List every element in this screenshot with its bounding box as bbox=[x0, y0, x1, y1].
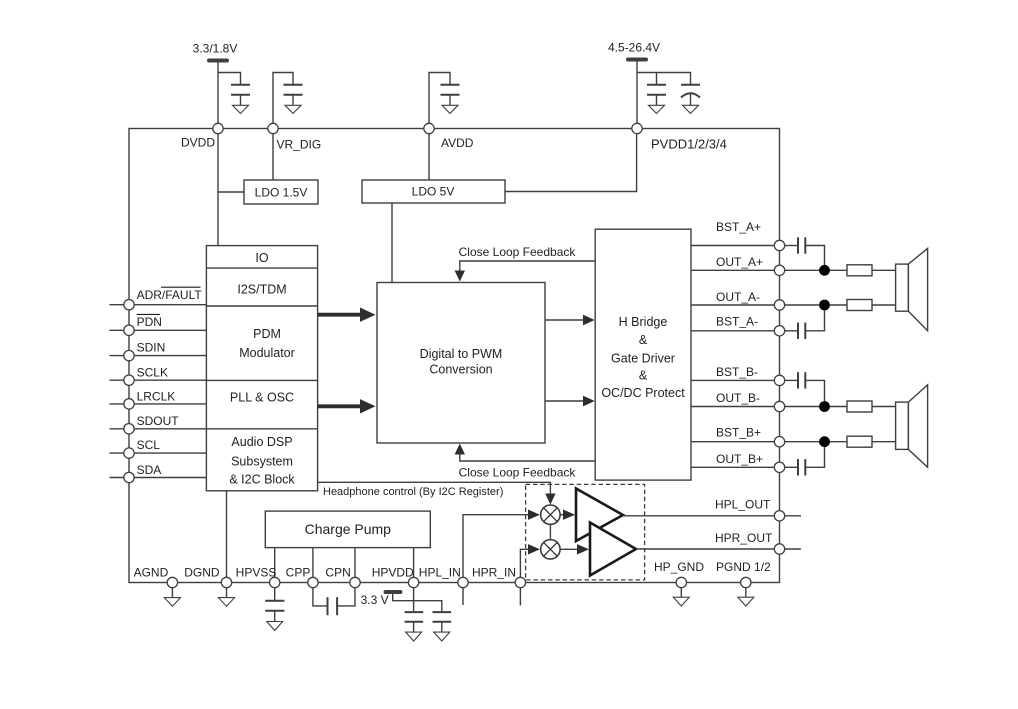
wire PVDD cap branch bbox=[637, 73, 691, 85]
svg-text:BST_A+: BST_A+ bbox=[716, 220, 761, 234]
capacitor HPVDD 2 bbox=[433, 612, 452, 622]
regulator LDO 1.5V bbox=[244, 180, 318, 204]
wire close loop feedback top bbox=[455, 245, 596, 282]
svg-text:OC/DC Protect: OC/DC Protect bbox=[601, 386, 685, 400]
wire resistor to speaker B bbox=[872, 441, 896, 443]
wire charge pump to HPVSS bbox=[274, 548, 276, 583]
ground bbox=[683, 94, 699, 114]
capacitor HPVDD 1 bbox=[405, 612, 424, 622]
pin HPL_IN bbox=[419, 566, 468, 606]
resistor B- bbox=[847, 401, 872, 412]
svg-text:OUT_B-: OUT_B- bbox=[716, 391, 760, 405]
svg-text:PDN: PDN bbox=[137, 315, 162, 329]
node DVDD bbox=[181, 123, 223, 149]
svg-text:HPR_IN: HPR_IN bbox=[472, 566, 516, 580]
svg-text:DVDD: DVDD bbox=[181, 136, 215, 150]
svg-text:&: & bbox=[639, 369, 648, 383]
block I2S/TDM bbox=[206, 283, 317, 307]
wire resistor to speaker A bbox=[872, 269, 896, 271]
pin SDIN bbox=[110, 341, 207, 361]
svg-text:& I2C Block: & I2C Block bbox=[229, 473, 295, 487]
thick bus arrow PLL to DPWM bbox=[318, 399, 376, 413]
speaker A bbox=[896, 248, 928, 330]
block Charge Pump bbox=[265, 511, 430, 547]
svg-text:HPVDD: HPVDD bbox=[372, 566, 414, 580]
wire LDO 5V output bbox=[391, 203, 393, 283]
ground bbox=[285, 95, 301, 114]
capacitor C4 bbox=[647, 85, 666, 95]
ground bbox=[649, 95, 665, 114]
wire charge pump to HPVDD bbox=[413, 548, 415, 583]
svg-text:OUT_B+: OUT_B+ bbox=[716, 452, 763, 466]
wire DVDD down to IO block bbox=[217, 134, 219, 246]
block IO bbox=[206, 251, 317, 268]
svg-text:PLL & OSC: PLL & OSC bbox=[230, 391, 294, 405]
resistor B+ bbox=[847, 436, 872, 447]
wire cap C4 stem bbox=[656, 73, 658, 85]
ground bbox=[267, 611, 283, 631]
pin LRCLK bbox=[110, 390, 207, 410]
mixer M2 bbox=[541, 540, 560, 559]
svg-text:Conversion: Conversion bbox=[429, 363, 492, 377]
svg-text:AGND: AGND bbox=[134, 566, 169, 580]
junction dot B- bbox=[819, 401, 830, 412]
wire HPL_IN riser bbox=[463, 515, 528, 583]
svg-text:OUT_A+: OUT_A+ bbox=[716, 255, 763, 269]
svg-text:BST_B+: BST_B+ bbox=[716, 426, 761, 440]
wire resistor to speaker B bbox=[872, 406, 896, 408]
wire AVDD cap branch bbox=[429, 73, 450, 129]
power rail 4.5-26.4V bbox=[608, 41, 660, 60]
arrow into mixer M1 bbox=[528, 510, 540, 520]
capacitor CPP-CPN flying bbox=[328, 597, 338, 615]
svg-text:I2S/TDM: I2S/TDM bbox=[237, 283, 286, 297]
svg-text:CPP: CPP bbox=[286, 566, 311, 580]
ground bbox=[406, 622, 422, 641]
capacitor HPVSS bbox=[265, 601, 284, 611]
node OUT_A+ bbox=[691, 255, 785, 275]
wire charge pump to CPN bbox=[354, 548, 356, 583]
svg-text:4.5-26.4V: 4.5-26.4V bbox=[608, 41, 660, 55]
svg-text:IO: IO bbox=[255, 251, 268, 265]
block PDM Modulator bbox=[206, 327, 317, 380]
svg-text:LDO 1.5V: LDO 1.5V bbox=[255, 186, 308, 200]
pin DGND bbox=[184, 566, 234, 607]
block digital stack outline bbox=[206, 246, 317, 491]
wire AVDD to LDO 5V bbox=[428, 134, 430, 180]
svg-text:Audio DSP: Audio DSP bbox=[231, 435, 292, 449]
svg-text:HPVSS: HPVSS bbox=[236, 566, 277, 580]
capacitor C3 bbox=[441, 85, 460, 95]
wire PVDD supply bbox=[636, 60, 638, 129]
thick bus arrow PDM to DPWM bbox=[318, 308, 376, 322]
arrow into mixer M2 bbox=[528, 544, 540, 554]
svg-text:Subsystem: Subsystem bbox=[231, 455, 293, 469]
svg-text:SCLK: SCLK bbox=[137, 366, 168, 380]
svg-text:CPN: CPN bbox=[325, 566, 350, 580]
node BST_A+ bbox=[691, 220, 785, 251]
wire between mixers bbox=[549, 524, 551, 539]
resistor A+ bbox=[847, 265, 872, 276]
svg-text:PDM: PDM bbox=[253, 327, 281, 341]
wire VR_DIG to LDO 1.5V bbox=[272, 134, 274, 180]
junction dot A- bbox=[819, 300, 830, 311]
wire DSP to DGND bbox=[226, 491, 228, 583]
svg-text:LDO 5V: LDO 5V bbox=[412, 185, 455, 199]
capacitor OUT_B+ bbox=[785, 447, 825, 475]
svg-text:AVDD: AVDD bbox=[441, 136, 474, 150]
svg-text:Modulator: Modulator bbox=[239, 346, 295, 360]
svg-text:LRCLK: LRCLK bbox=[137, 390, 176, 404]
capacitor BST_A- bbox=[785, 310, 825, 339]
svg-text:Close Loop Feedback: Close Loop Feedback bbox=[459, 466, 577, 480]
block Digital to PWM Conversion bbox=[377, 283, 545, 444]
capacitor C1 bbox=[231, 85, 250, 95]
wire OUT_A- to junction bbox=[785, 304, 847, 306]
pin CPN bbox=[325, 566, 360, 606]
node BST_A- bbox=[691, 315, 785, 336]
svg-text:BST_A-: BST_A- bbox=[716, 315, 758, 329]
svg-text:Gate Driver: Gate Driver bbox=[611, 352, 675, 366]
svg-text:Close Loop Feedback: Close Loop Feedback bbox=[459, 245, 577, 259]
node OUT_B+ bbox=[691, 452, 785, 472]
svg-text:Digital to PWM: Digital to PWM bbox=[420, 347, 503, 361]
svg-text:PVDD1/2/3/4: PVDD1/2/3/4 bbox=[651, 137, 727, 152]
svg-text:HP_GND: HP_GND bbox=[654, 560, 704, 574]
svg-text:PGND 1/2: PGND 1/2 bbox=[716, 560, 771, 574]
capacitor BST_A+ bbox=[785, 237, 825, 265]
node VR_DIG bbox=[268, 123, 321, 151]
capacitor C5 polarized bbox=[681, 85, 700, 98]
node OUT_B- bbox=[691, 391, 785, 412]
capacitor C2 bbox=[284, 85, 303, 95]
svg-text:Headphone control (By I2C Reg: Headphone control (By I2C Register) bbox=[323, 486, 503, 498]
ground bbox=[233, 95, 249, 114]
pin HPR_IN bbox=[472, 566, 526, 606]
svg-text:3.3/1.8V: 3.3/1.8V bbox=[193, 42, 238, 56]
svg-text:BST_B-: BST_B- bbox=[716, 365, 758, 379]
node OUT_A- bbox=[691, 290, 785, 310]
node BST_B- bbox=[691, 365, 785, 386]
wire headphone control bbox=[318, 482, 556, 504]
wire arrow DPWM to H-bridge (top) bbox=[545, 315, 595, 326]
svg-text:H Bridge: H Bridge bbox=[619, 315, 668, 329]
resistor A- bbox=[847, 300, 872, 311]
regulator LDO 5V bbox=[362, 180, 505, 203]
pin HPVDD bbox=[372, 566, 419, 613]
ground bbox=[442, 95, 458, 114]
wire OUT_B- to junction bbox=[785, 406, 847, 408]
svg-text:SDA: SDA bbox=[137, 463, 162, 477]
svg-text:Charge Pump: Charge Pump bbox=[305, 521, 392, 537]
power rail 3.3/1.8V bbox=[193, 42, 238, 61]
junction dot B+ bbox=[819, 436, 830, 447]
wire HPL_OUT bbox=[623, 498, 801, 522]
wire HPR_OUT bbox=[636, 531, 801, 554]
headphone amp dashed box bbox=[526, 484, 645, 580]
svg-text:&: & bbox=[639, 333, 648, 347]
arrow mixer M2 to amp bbox=[560, 544, 589, 554]
node PVDD1/2/3/4 bbox=[632, 123, 727, 151]
svg-text:DGND: DGND bbox=[184, 566, 220, 580]
pin HP_GND bbox=[654, 560, 704, 606]
svg-text:3.3 V: 3.3 V bbox=[361, 593, 389, 607]
ground bbox=[434, 622, 450, 641]
svg-text:SDOUT: SDOUT bbox=[137, 414, 180, 428]
pin SCL bbox=[110, 438, 207, 458]
block PLL & OSC bbox=[206, 391, 317, 429]
svg-text:SCL: SCL bbox=[137, 438, 161, 452]
arrow mixer M1 to amp bbox=[560, 510, 575, 520]
wire OUT_A+ to junction bbox=[785, 269, 847, 271]
wire VR_DIG cap branch bbox=[273, 73, 293, 129]
svg-text:VR_DIG: VR_DIG bbox=[277, 138, 322, 152]
wire close loop feedback bottom bbox=[455, 444, 596, 480]
node BST_B+ bbox=[691, 426, 785, 447]
block H Bridge bbox=[595, 229, 691, 480]
svg-text:HPL_IN: HPL_IN bbox=[419, 566, 461, 580]
power rail 3.3V bbox=[361, 592, 442, 612]
block Audio DSP Subsystem & I2C Block bbox=[229, 435, 295, 487]
wire DVDD tap to LDO 1.5V bbox=[218, 191, 244, 193]
op-amp headphone L bbox=[576, 489, 623, 542]
pin SCLK bbox=[110, 366, 207, 386]
junction dot A+ bbox=[819, 265, 830, 276]
wire BST_B+ to junction bbox=[785, 441, 847, 443]
node AVDD bbox=[424, 123, 474, 150]
wire HPR_IN riser bbox=[520, 549, 528, 582]
op-amp headphone R bbox=[590, 523, 636, 576]
pin SDA bbox=[110, 463, 207, 483]
wire arrow DPWM to H-bridge (bottom) bbox=[545, 396, 595, 407]
svg-text:ADR/FAULT: ADR/FAULT bbox=[137, 288, 203, 302]
pin PGND 1/2 bbox=[716, 560, 771, 606]
pin AGND bbox=[134, 566, 181, 607]
pin PDN bbox=[110, 314, 207, 335]
svg-text:OUT_A-: OUT_A- bbox=[716, 290, 760, 304]
pin SDOUT bbox=[110, 414, 207, 434]
chip outline bbox=[129, 129, 780, 583]
pin HPVSS bbox=[236, 566, 280, 601]
pin CPP bbox=[286, 566, 328, 606]
svg-text:HPR_OUT: HPR_OUT bbox=[715, 531, 773, 545]
speaker B bbox=[896, 385, 928, 468]
wire resistor to speaker A bbox=[872, 304, 896, 306]
capacitor BST_B- bbox=[785, 372, 825, 401]
wire DVDD supply bbox=[217, 61, 219, 129]
mixer M1 bbox=[541, 505, 560, 524]
svg-text:SDIN: SDIN bbox=[137, 341, 166, 355]
svg-text:HPL_OUT: HPL_OUT bbox=[715, 498, 771, 512]
pin ADR/FAULT bbox=[110, 287, 207, 310]
wire charge pump to CPP bbox=[312, 548, 314, 583]
wire DVDD cap branch bbox=[218, 73, 241, 85]
wire LDO 5V input from PVDD bbox=[505, 134, 637, 192]
